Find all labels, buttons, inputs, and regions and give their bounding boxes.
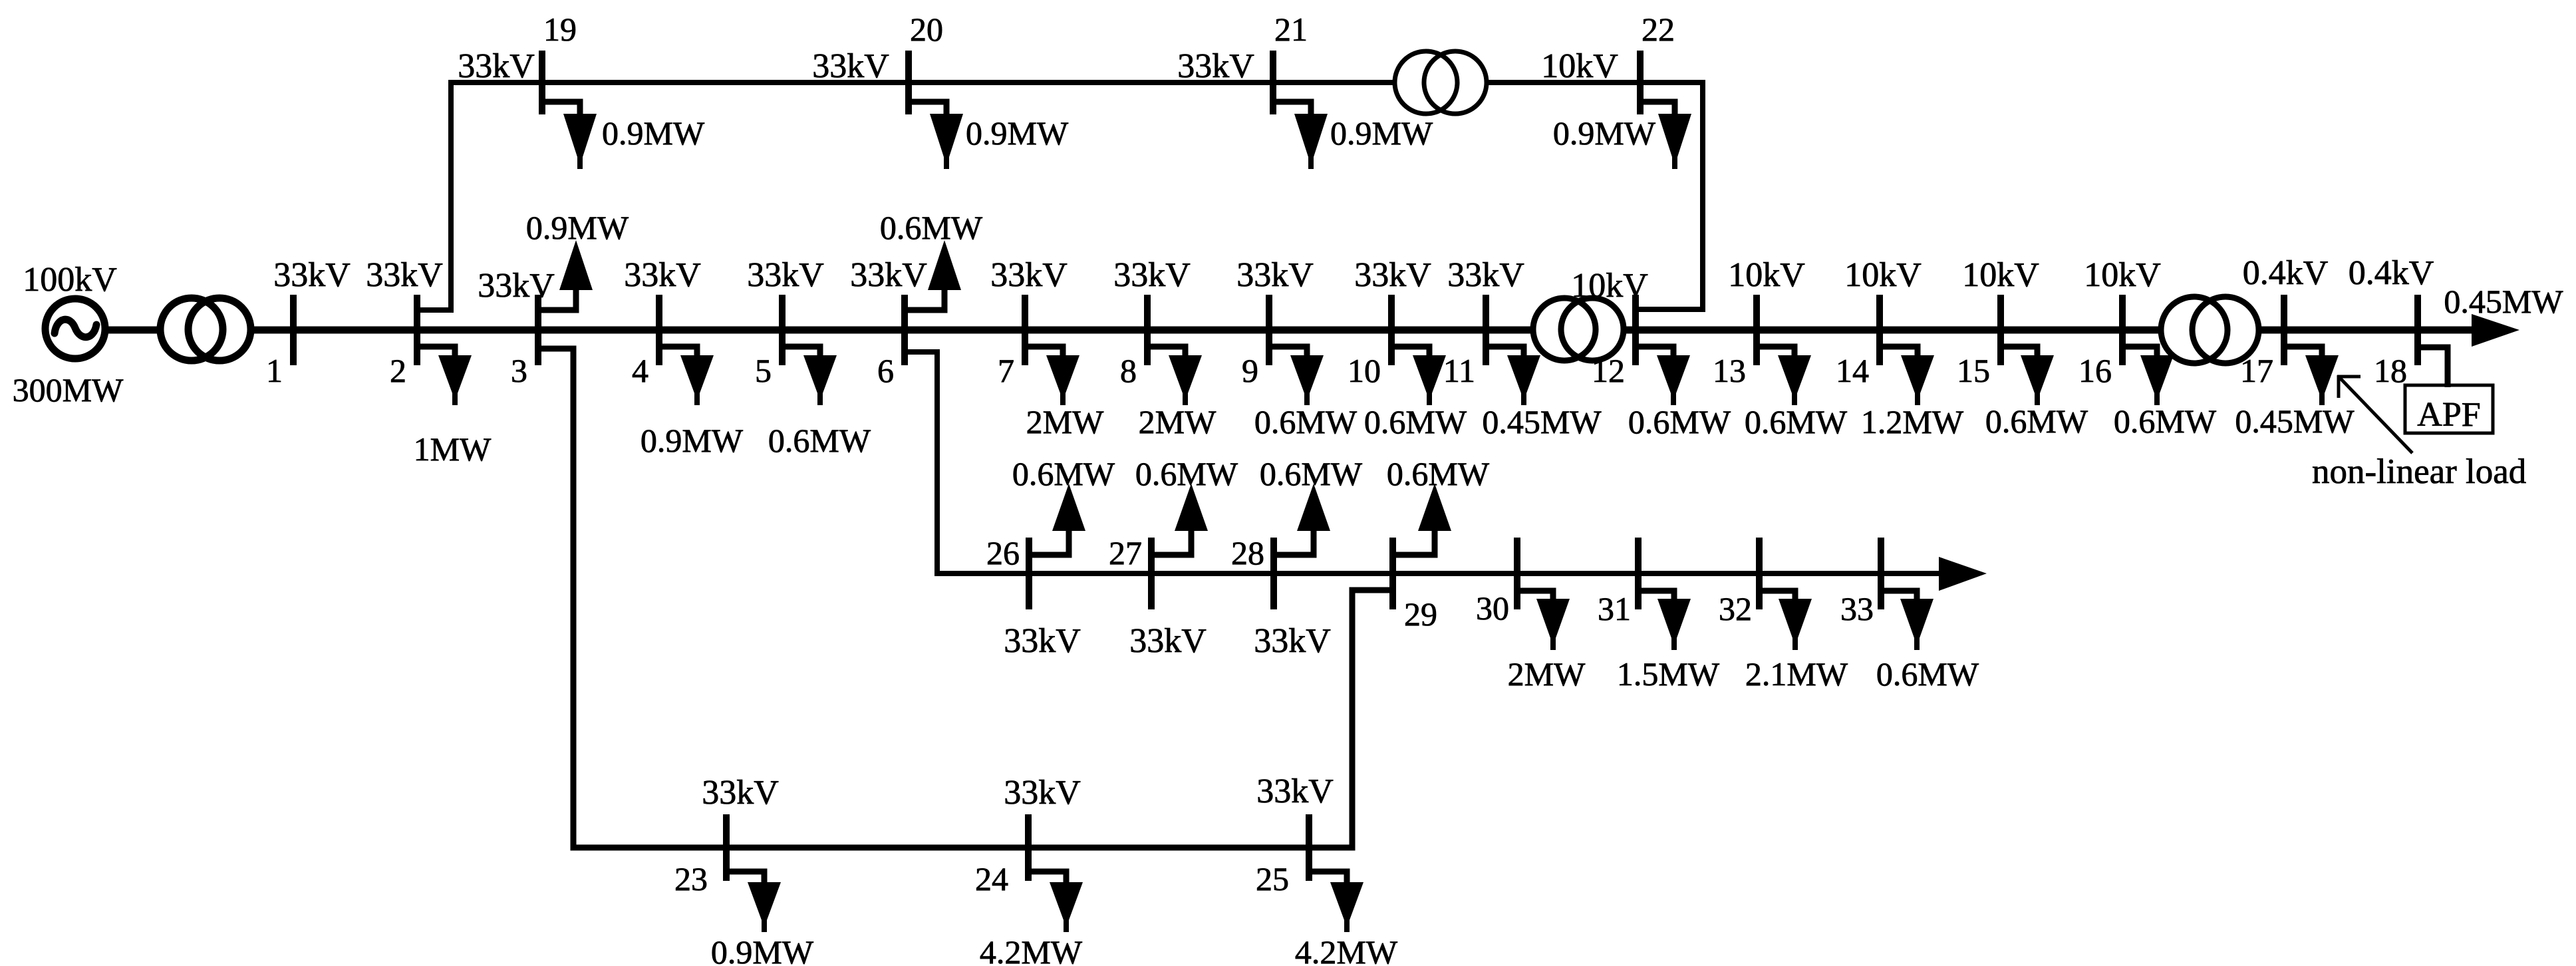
bus 16 bar — [2119, 295, 2126, 365]
svg-text:33kV: 33kV — [812, 47, 889, 85]
load bus23 0.9MW — [711, 872, 814, 966]
svg-text:33kV: 33kV — [1113, 256, 1191, 294]
svg-text:0.9MW: 0.9MW — [641, 422, 744, 459]
gen bus29 0.6MW — [1387, 455, 1490, 555]
bus 3 bar — [535, 295, 541, 365]
svg-text:33kV: 33kV — [478, 267, 555, 305]
svg-text:2MW: 2MW — [1139, 403, 1216, 440]
load bus14 1.2MW — [1861, 347, 1964, 440]
svg-text:0.6MW: 0.6MW — [2114, 402, 2217, 440]
bus 2 bar — [414, 295, 420, 365]
load bus25 4.2MW — [1295, 872, 1398, 966]
svg-text:33kV: 33kV — [624, 256, 701, 294]
svg-text:2MW: 2MW — [1508, 655, 1586, 693]
bus 18 bar — [2414, 295, 2421, 365]
svg-text:33kV: 33kV — [702, 774, 779, 812]
svg-text:0.6MW: 0.6MW — [1364, 403, 1467, 440]
svg-text:0.6MW: 0.6MW — [1628, 403, 1731, 440]
svg-text:22: 22 — [1642, 11, 1675, 48]
bus 21 bar — [1270, 51, 1276, 114]
APF box on bus 18 — [2405, 347, 2493, 434]
svg-text:0.6MW: 0.6MW — [1876, 655, 1979, 693]
load bus4 0.9MW — [641, 347, 744, 459]
load bus32 2.1MW — [1745, 591, 1848, 693]
bus 23 bar — [723, 814, 730, 881]
annotation arrow non-linear load — [2337, 375, 2412, 453]
bus 31 bar — [1635, 538, 1642, 609]
svg-text:33kV: 33kV — [458, 47, 535, 85]
svg-text:0.9MW: 0.9MW — [1330, 114, 1433, 152]
svg-text:2.1MW: 2.1MW — [1745, 655, 1848, 693]
wire lower feeder bus6-26..33 — [905, 352, 1939, 573]
svg-text:25: 25 — [1256, 860, 1289, 897]
svg-text:0.4kV: 0.4kV — [2349, 254, 2434, 292]
load bus15 0.6MW — [1985, 347, 2088, 440]
wire bottom feeder bus3-23-24-25-bus29 — [538, 349, 1389, 848]
svg-text:23: 23 — [674, 860, 708, 897]
svg-text:28: 28 — [1231, 534, 1264, 571]
svg-text:19: 19 — [543, 11, 577, 48]
bus 6 bar — [901, 295, 908, 365]
svg-text:5: 5 — [755, 352, 772, 389]
bus 11 bar — [1483, 295, 1489, 365]
svg-text:4.2MW: 4.2MW — [1295, 933, 1398, 966]
bus 27 bar — [1148, 538, 1155, 609]
svg-text:7: 7 — [998, 352, 1014, 389]
load bus8 2MW — [1139, 347, 1216, 440]
load bus31 1.5MW — [1617, 591, 1720, 693]
load bus5 0.6MW — [768, 347, 871, 459]
svg-text:0.6MW: 0.6MW — [1387, 455, 1490, 492]
bus 15 bar — [1997, 295, 2004, 365]
load bus19 0.9MW — [542, 102, 705, 169]
bus 17 bar — [2281, 295, 2287, 365]
svg-text:33kV: 33kV — [1004, 622, 1081, 660]
bus 4 bar — [656, 295, 662, 365]
wire top feeder loop bus2-19-20-21-22-bus12 — [417, 82, 1703, 310]
svg-text:9: 9 — [1242, 352, 1258, 389]
svg-text:APF: APF — [2417, 396, 2480, 434]
load bus24 4.2MW — [980, 872, 1083, 966]
svg-text:33kV: 33kV — [990, 256, 1068, 294]
svg-text:33kV: 33kV — [1447, 256, 1524, 294]
gen bus3 0.9MW — [526, 209, 629, 310]
bus 24 bar — [1025, 814, 1032, 881]
svg-text:0.6MW: 0.6MW — [1745, 403, 1848, 440]
bus 25 bar — [1306, 814, 1312, 881]
svg-text:11: 11 — [1443, 352, 1475, 389]
svg-text:33kV: 33kV — [1177, 47, 1254, 85]
svg-text:300MW: 300MW — [13, 371, 124, 408]
svg-text:2: 2 — [390, 352, 406, 389]
svg-text:0.45MW: 0.45MW — [2235, 402, 2355, 440]
svg-text:0.9MW: 0.9MW — [526, 209, 629, 246]
svg-text:26: 26 — [986, 534, 1020, 571]
bus 12 bar — [1632, 295, 1639, 365]
load bus2 1MW — [414, 347, 492, 468]
bus 8 bar — [1144, 295, 1151, 365]
bus 7 bar — [1022, 295, 1028, 365]
bus 5 bar — [779, 295, 786, 365]
load bus30 2MW — [1508, 591, 1586, 693]
svg-text:6: 6 — [877, 352, 894, 389]
svg-text:0.9MW: 0.9MW — [711, 933, 814, 966]
bus 22 bar — [1637, 51, 1644, 114]
load bus12 0.6MW — [1628, 347, 1731, 440]
svg-text:0.9MW: 0.9MW — [602, 114, 705, 152]
svg-text:4.2MW: 4.2MW — [980, 933, 1083, 966]
svg-text:10kV: 10kV — [1571, 267, 1648, 305]
svg-text:10kV: 10kV — [1844, 256, 1922, 294]
svg-text:2MW: 2MW — [1026, 403, 1104, 440]
transformer T1 (source step-down) — [160, 298, 251, 361]
svg-text:18: 18 — [2374, 352, 2407, 389]
bus 13 bar — [1753, 295, 1760, 365]
svg-text:30: 30 — [1476, 589, 1509, 627]
load bus13 0.6MW — [1745, 347, 1848, 440]
svg-text:10kV: 10kV — [2084, 256, 2161, 294]
bus 10 bar — [1388, 295, 1395, 365]
transformer T2 33kV/10kV bus11-bus12 — [1533, 298, 1624, 361]
svg-text:17: 17 — [2240, 352, 2273, 389]
bus 9 bar — [1266, 295, 1272, 365]
svg-text:27: 27 — [1109, 534, 1142, 571]
svg-text:15: 15 — [1957, 352, 1990, 389]
bus 14 bar — [1876, 295, 1883, 365]
load bus20 0.9MW — [909, 102, 1069, 169]
bus 20 bar — [905, 51, 912, 114]
svg-text:33kV: 33kV — [1354, 256, 1431, 294]
load bus21 0.9MW — [1273, 102, 1433, 169]
svg-text:12: 12 — [1592, 352, 1625, 389]
svg-text:0.9MW: 0.9MW — [1553, 114, 1656, 152]
wire main 33kV/10kV/0.4kV trunk bus1-bus18 — [100, 327, 2472, 334]
bus 32 bar — [1756, 538, 1763, 609]
svg-text:0.45MW: 0.45MW — [1482, 403, 1602, 440]
svg-text:29: 29 — [1404, 595, 1437, 633]
bus 19 bar — [539, 51, 545, 114]
generator source 100kV 300MW — [13, 261, 124, 408]
bus 30 bar — [1514, 538, 1520, 609]
load bus10 0.6MW — [1364, 347, 1467, 440]
svg-text:1MW: 1MW — [414, 430, 492, 468]
svg-text:33kV: 33kV — [1004, 774, 1081, 812]
svg-text:33kV: 33kV — [1256, 772, 1334, 810]
svg-text:4: 4 — [632, 352, 648, 389]
bus 1 bar — [290, 295, 297, 365]
svg-text:0.4kV: 0.4kV — [2243, 254, 2329, 292]
bus 29 bar — [1389, 538, 1396, 609]
load bus11 0.45MW — [1482, 347, 1602, 440]
transformer T4 33kV/10kV bus21-bus22 — [1395, 51, 1487, 114]
load bus9 0.6MW — [1254, 347, 1358, 440]
svg-text:1.5MW: 1.5MW — [1617, 655, 1720, 693]
svg-text:3: 3 — [511, 352, 527, 389]
svg-text:8: 8 — [1120, 352, 1137, 389]
svg-text:20: 20 — [910, 11, 943, 48]
load bus7 2MW — [1025, 347, 1104, 440]
gen bus6 0.6MW — [880, 209, 983, 310]
svg-text:0.6MW: 0.6MW — [1135, 455, 1238, 492]
svg-text:16: 16 — [2078, 352, 2112, 389]
svg-text:33: 33 — [1840, 590, 1874, 627]
svg-text:0.45MW: 0.45MW — [2444, 283, 2563, 320]
svg-text:33kV: 33kV — [1254, 622, 1331, 660]
gen bus28 0.6MW — [1260, 455, 1363, 555]
svg-text:33kV: 33kV — [850, 256, 927, 294]
svg-text:0.6MW: 0.6MW — [768, 422, 871, 459]
svg-text:31: 31 — [1598, 590, 1631, 627]
svg-text:100kV: 100kV — [23, 261, 117, 299]
arrow main line end 0.45MW — [2472, 314, 2519, 347]
svg-text:10kV: 10kV — [1541, 47, 1618, 85]
gen bus27 0.6MW — [1135, 455, 1238, 555]
svg-text:33kV: 33kV — [366, 256, 443, 294]
gen bus26 0.6MW — [1012, 455, 1115, 555]
load bus17 0.45MW non-linear — [2235, 347, 2355, 440]
svg-text:33kV: 33kV — [747, 256, 824, 294]
transformer T3 10kV/0.4kV bus16-bus17 — [2161, 297, 2259, 363]
svg-text:33kV: 33kV — [1129, 622, 1207, 660]
svg-text:14: 14 — [1836, 352, 1869, 389]
svg-text:13: 13 — [1713, 352, 1746, 389]
svg-text:0.6MW: 0.6MW — [1260, 455, 1363, 492]
svg-text:1.2MW: 1.2MW — [1861, 403, 1964, 440]
svg-text:non-linear load: non-linear load — [2312, 452, 2526, 491]
svg-text:32: 32 — [1719, 590, 1752, 627]
svg-text:33kV: 33kV — [1236, 256, 1314, 294]
load bus16 0.6MW — [2114, 347, 2217, 440]
bus 26 bar — [1026, 538, 1032, 609]
svg-text:0.9MW: 0.9MW — [966, 114, 1069, 152]
svg-text:10kV: 10kV — [1962, 256, 2039, 294]
svg-text:0.6MW: 0.6MW — [1012, 455, 1115, 492]
load bus22 0.9MW — [1553, 102, 1691, 169]
bus 28 bar — [1270, 538, 1277, 609]
svg-text:21: 21 — [1274, 11, 1308, 48]
svg-text:0.6MW: 0.6MW — [880, 209, 983, 246]
svg-text:10: 10 — [1348, 352, 1381, 389]
svg-text:24: 24 — [975, 860, 1008, 897]
svg-text:10kV: 10kV — [1728, 256, 1805, 294]
load bus33 0.6MW — [1876, 591, 1979, 693]
svg-text:1: 1 — [266, 352, 283, 389]
svg-text:0.6MW: 0.6MW — [1985, 402, 2088, 440]
svg-text:0.6MW: 0.6MW — [1254, 403, 1358, 440]
bus 33 bar — [1878, 538, 1884, 609]
svg-text:33kV: 33kV — [273, 256, 351, 294]
arrow lower line end — [1939, 557, 1987, 591]
